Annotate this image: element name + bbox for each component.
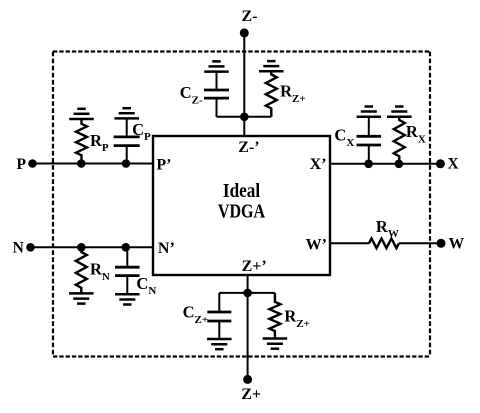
svg-text:P’: P’: [156, 157, 171, 174]
svg-text:Z-’: Z-’: [238, 139, 259, 156]
svg-text:X’: X’: [310, 156, 327, 173]
svg-text:Z+: Z+: [241, 386, 261, 403]
svg-text:Z+’: Z+’: [242, 258, 267, 275]
svg-text:VDGA: VDGA: [218, 201, 266, 223]
svg-text:P: P: [17, 156, 27, 173]
svg-text:W: W: [449, 235, 465, 252]
svg-text:W’: W’: [306, 236, 327, 253]
svg-text:N’: N’: [158, 240, 175, 257]
svg-text:Ideal: Ideal: [223, 180, 261, 202]
svg-text:X: X: [448, 155, 460, 172]
svg-text:Z-: Z-: [242, 8, 258, 25]
svg-text:N: N: [13, 240, 24, 257]
